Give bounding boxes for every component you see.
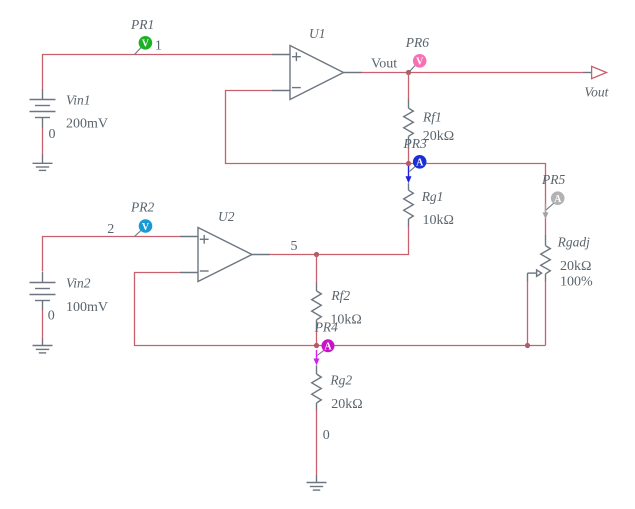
resistor Rf1 [404,99,414,149]
wire Rgadj bottom to bottom net [545,281,547,346]
wire bottom net [317,345,546,347]
wire U1 out to Vout node [362,72,409,74]
junction node 5 [314,252,319,257]
wire feedback node to Rgadj branch [409,164,546,236]
wire Vin2- to ground [42,310,44,339]
op-amp U2 [180,228,270,282]
svg-text:10kΩ: 10kΩ [423,213,454,228]
wire U1 in- feedback [226,91,409,164]
svg-text:Vin2: Vin2 [66,276,91,291]
wire U2 in- to bottom net [135,273,317,346]
junction Vout node [406,70,411,75]
svg-text:100%: 100% [560,275,593,290]
wire Rf1 bottom [408,148,410,163]
svg-text:Rgadj: Rgadj [557,235,590,250]
svg-text:PR3: PR3 [403,136,427,151]
op-amp U1 [272,46,362,100]
wire Rg2 to ground (net 0) [316,410,318,476]
wire Vin1- to ground [42,127,44,155]
svg-text:2: 2 [107,222,114,237]
voltage source Vin2 [30,272,56,311]
svg-text:Rg1: Rg1 [421,189,444,204]
svg-text:Vout: Vout [584,84,609,99]
wire node 5 to Rf2 [316,255,318,284]
svg-text:PR2: PR2 [130,200,154,215]
output connector Vout [592,66,607,78]
svg-text:Rf2: Rf2 [330,288,350,303]
svg-text:20kΩ: 20kΩ [560,259,591,274]
svg-text:PR5: PR5 [541,172,565,187]
voltage source Vin1 [30,89,56,128]
wire Vout node to output connector [409,72,592,74]
probe PR2 [130,200,154,237]
svg-text:PR1: PR1 [130,17,154,32]
wire Rf2 to bottom node [316,331,318,346]
svg-text:PR4: PR4 [314,319,338,334]
ground (Vin2) [33,339,53,353]
svg-text:20kΩ: 20kΩ [423,129,454,144]
svg-text:Rg2: Rg2 [329,373,352,388]
svg-text:V: V [416,57,424,68]
ground (Vin1) [33,155,53,171]
wire Rf1 top [408,73,410,100]
probe PR3 [403,136,427,183]
wire Vin2+ to U2 in+ (net 2) [43,237,181,272]
svg-text:1: 1 [155,39,162,54]
probe PR6 [405,35,429,73]
wire wiper to bottom net [527,281,529,346]
probe PR4 [314,319,339,365]
wire Rg1 to node 5 [317,226,409,254]
svg-text:PR6: PR6 [405,35,429,50]
svg-text:20kΩ: 20kΩ [331,397,362,412]
svg-text:100mV: 100mV [66,300,108,315]
svg-text:V: V [142,222,150,233]
ground (Rg2) [307,475,327,490]
svg-text:Vout: Vout [371,57,397,72]
resistor Rf2 [312,283,322,332]
svg-text:0: 0 [49,127,56,142]
resistor Rgadj (potentiometer) [528,235,551,281]
svg-text:5: 5 [291,239,298,254]
junction wiper node [525,343,530,348]
svg-text:Vin1: Vin1 [66,92,91,107]
resistor Rg2 [312,365,322,410]
junction feedback node [406,161,411,166]
svg-text:A: A [554,194,562,205]
svg-text:A: A [324,342,332,353]
svg-text:U2: U2 [218,209,235,224]
wire U2 out to node 5 [270,254,317,256]
svg-text:V: V [142,39,150,50]
svg-text:0: 0 [323,428,330,443]
svg-text:U1: U1 [309,26,326,41]
resistor Rg1 [404,183,414,227]
svg-text:200mV: 200mV [66,117,108,132]
probe PR5 [541,172,565,219]
svg-text:Rf1: Rf1 [422,110,442,125]
probe PR1 [130,17,154,55]
junction Rf2/Rg2 node [314,343,319,348]
wire Vin1+ to U1 in+ (net 1) [43,55,273,90]
svg-text:A: A [416,158,424,169]
svg-text:0: 0 [48,309,55,324]
